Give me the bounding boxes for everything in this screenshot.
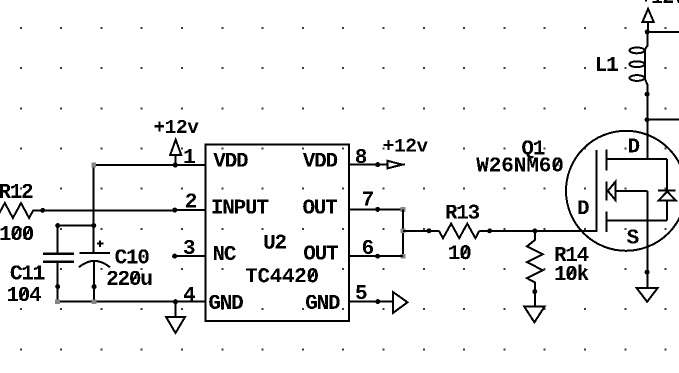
wire OUT branch to R13: [403, 230, 439, 232]
label Q1: [522, 140, 544, 158]
vertex marker (gray) pin6 corner: [401, 254, 406, 259]
Q1 gate bar: [596, 150, 598, 232]
wire vertical +12v rail down to C10: [93, 165, 95, 253]
wire pin 3 stub: [175, 255, 206, 257]
ground symbol below pin 4: [166, 302, 185, 333]
body diode anode lead: [666, 201, 668, 221]
vertex marker (gray) mid branch: [401, 228, 406, 233]
Q1 body arrow line: [616, 190, 648, 192]
value 10: [449, 245, 470, 259]
node: pin 7 endpoint dot: [375, 207, 380, 212]
part number W26NM60: [476, 157, 562, 171]
capacitor C11 top lead: [57, 226, 59, 254]
node: dot below L1: [645, 92, 650, 97]
body diode triangle: [659, 192, 676, 201]
resistor R12: [0, 203, 43, 218]
wire pin 8 stub: [349, 164, 387, 166]
capacitor C10 top plate: [80, 252, 110, 254]
label R13: [446, 205, 479, 219]
reference U2: [264, 235, 285, 249]
wire joining OUT pins: [402, 209, 404, 256]
pin number 8: [356, 149, 366, 163]
Q1 channel bar bottom segment: [606, 211, 608, 231]
label +12v (left): [154, 120, 198, 133]
label R12: [0, 184, 32, 198]
node: pin 1 / +12v junction dot: [173, 163, 178, 168]
pin number 5: [356, 285, 366, 299]
label C11: [11, 265, 45, 279]
node: R13 left terminal dot: [426, 228, 431, 233]
label R14: [555, 247, 588, 261]
wire drain branch to page edge: [647, 119, 679, 121]
Q1 body arrowhead: [608, 182, 616, 201]
node: drain branch junction dot: [645, 117, 650, 122]
pin number 6: [363, 240, 373, 254]
label C10: [115, 249, 148, 263]
pin label OUT (pin 6): [304, 245, 338, 259]
label +12v (right): [384, 139, 428, 152]
node: R13 right terminal dot: [487, 228, 492, 233]
wire pin 1 to corner: [94, 164, 206, 166]
vertex marker (gray) at C10 ground corner: [92, 299, 97, 304]
pin label NC (pin 3): [214, 246, 236, 260]
node: C10 bottom terminal dot: [92, 284, 97, 289]
node: pin 6 endpoint dot: [375, 254, 380, 259]
wire source down to ground: [646, 191, 648, 288]
wire down to inductor: [646, 32, 648, 47]
pin number 1: [185, 149, 195, 163]
node: pin 8 endpoint dot: [375, 162, 380, 167]
resistor R13: [439, 224, 480, 239]
Q1 source connection line: [607, 219, 667, 221]
label L1: [597, 57, 618, 71]
body diode cathode lead: [666, 159, 668, 190]
wire +12v to page edge: [647, 31, 679, 33]
node: R12 right terminal dot: [40, 208, 45, 213]
node: R14 bottom terminal dot: [532, 289, 537, 294]
vertex marker (gray) pin7 corner: [401, 207, 406, 212]
capacitor C11 plates: [43, 254, 74, 262]
node: pin 2 endpoint dot: [172, 208, 177, 213]
ground symbol below Q1 source: [637, 288, 658, 302]
value 104: [8, 287, 41, 301]
pin label VDD (pin 8): [303, 153, 337, 167]
wire C10 to ground bus: [93, 287, 95, 302]
wire R12 to pin 2: [43, 209, 175, 211]
node: C11 top terminal dot: [55, 223, 60, 228]
body diode cathode bar: [658, 189, 675, 191]
pin label VDD (pin 1): [213, 153, 247, 167]
op-amp driver IC U2 body: [206, 145, 349, 321]
power +12v symbol (left): [170, 140, 181, 165]
part number TC4420: [246, 268, 318, 282]
wire pin 5 stub: [349, 301, 393, 303]
pin label INPUT (pin 2): [213, 200, 269, 214]
node: +12v top junction dot: [645, 29, 650, 34]
Q1 channel bar middle segment: [606, 181, 608, 200]
node: source ground junction dot: [645, 270, 650, 275]
capacitor C10 curved bottom plate: [79, 261, 110, 267]
pin number 4: [184, 287, 195, 301]
pin number 3: [184, 240, 195, 254]
node: pin 3 endpoint dot: [172, 254, 177, 259]
node: C11 bottom terminal dot: [55, 284, 60, 289]
wire inductor to drain: [646, 88, 648, 159]
capacitor C10 plus sign: [97, 240, 104, 247]
value 100: [0, 226, 33, 240]
pin label D (drain, top): [629, 138, 639, 152]
wire R13 to gate: [479, 230, 595, 232]
transistor Q1 body circle: [566, 131, 679, 251]
node: R14 top junction dot: [532, 228, 537, 233]
pin label OUT (pin 7): [303, 199, 337, 213]
pin label D (left): [578, 200, 588, 214]
wire C11 to ground bus: [57, 287, 59, 302]
wire pin 6 stub: [349, 255, 403, 257]
pin number 7: [363, 192, 373, 206]
inductor L1: [630, 46, 648, 91]
pin number 2: [186, 193, 196, 207]
output arrow (pin 5): [393, 292, 408, 313]
pin label GND (pin 4): [209, 295, 243, 309]
value 10k: [555, 265, 588, 280]
vertex marker (gray) at C11 ground corner: [55, 299, 60, 304]
wire pin 7 stub: [349, 208, 403, 210]
Q1 channel bar top segment: [606, 150, 608, 171]
node: junction dot on +12v rail: [91, 223, 96, 228]
vertex marker (gray) at +12v corner: [91, 163, 96, 168]
ground bus wire to pin 4: [58, 301, 206, 303]
Q1 drain connection line: [607, 158, 667, 160]
label +12v (top, clipped): [641, 0, 679, 3]
capacitor C11 bottom lead: [57, 263, 59, 287]
node: pin 4 endpoint dot: [173, 299, 178, 304]
pin label GND (pin 5): [306, 295, 340, 309]
ground symbol below R14: [524, 292, 545, 323]
pin label S (source): [627, 229, 639, 243]
value 220u: [107, 271, 151, 285]
power +12v symbol (top): [642, 9, 653, 32]
resistor R14: [527, 231, 543, 292]
capacitor C10 bottom lead: [93, 262, 95, 287]
node: pin 5 endpoint dot: [375, 299, 380, 304]
output arrow +12v (pin 8): [387, 161, 404, 169]
wire pin 2 stub: [175, 209, 206, 211]
wire branch to C11 top: [58, 225, 94, 227]
